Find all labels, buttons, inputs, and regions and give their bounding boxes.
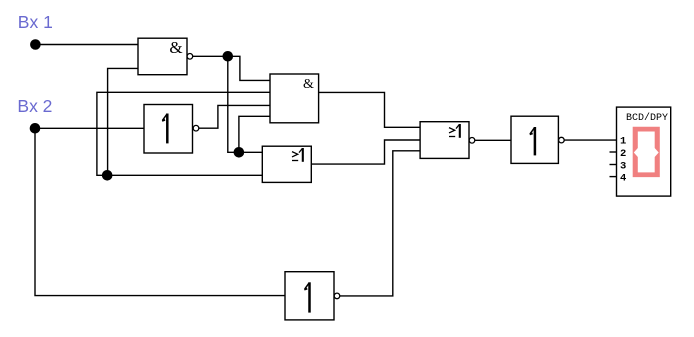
wire N4 to OR G4 input 1: [239, 151, 262, 153]
NAND gate G1: [138, 38, 193, 75]
svg-text:BCD/DPY: BCD/DPY: [626, 112, 668, 124]
wire inverter G6 output to display pin 1: [564, 139, 616, 141]
inverter G7 (bottom): [285, 272, 340, 320]
AND gate G3: [270, 74, 319, 123]
wire AND G3 output to NOR G5 input 1: [319, 92, 421, 127]
wire OR G4 output to NOR G5 input 2: [311, 140, 420, 164]
wire AND G3 input 2 long run (vertical at x=96.9 down to y=175.3): [97, 92, 270, 175]
wire NAND G1 output to node N3: [193, 55, 228, 57]
svg-text:3: 3: [620, 160, 626, 172]
wire Bx1 to NAND G1 input 1: [35, 44, 138, 46]
display segment notch right: [654, 147, 659, 157]
wire NOR G5 output to inverter G6 input: [475, 139, 511, 141]
wire N4 up to AND G3 input 4: [239, 116, 270, 152]
wire N3 down to node N4: [228, 56, 239, 152]
wire NOT G2 output to AND G3 input 3: [199, 105, 270, 128]
svg-text:1: 1: [620, 135, 626, 147]
wire buffer G7 output up to NOR G5 input 3: [340, 151, 420, 296]
svg-text:&: &: [169, 38, 182, 57]
node Bx2 input: [30, 123, 41, 134]
display 7-segment ring: [633, 127, 660, 177]
NOT gate G2: [144, 105, 199, 154]
BCD display U8 box: [617, 107, 671, 196]
node N4 junction: [234, 147, 245, 158]
inverter G6: [511, 116, 564, 163]
wire NAND G1 input 2 from node N5 (vertical at x=107.6): [108, 68, 138, 175]
display pin 3 stub: [610, 164, 617, 166]
display segment notch left: [634, 147, 639, 157]
display pin 4 stub: [610, 176, 617, 178]
node Bx1 input: [30, 39, 41, 50]
wire N3 to AND G3 input 1: [228, 56, 270, 80]
svg-text:4: 4: [620, 172, 626, 184]
display pin 2 stub: [610, 151, 617, 153]
node N3 NAND output junction: [223, 51, 234, 62]
svg-text:Bx 1: Bx 1: [18, 12, 53, 32]
node N5 junction x=107.6 on y=175.3 wire: [102, 170, 113, 181]
wire Bx2 to NOT G2 input: [35, 127, 144, 129]
wire Bx2 down to buffer G7 input: [35, 128, 285, 295]
OR gate G4: [262, 146, 311, 182]
svg-text:Bx 2: Bx 2: [17, 96, 52, 116]
svg-text:&: &: [303, 77, 314, 92]
NOR gate G5: [420, 122, 475, 159]
svg-text:2: 2: [620, 148, 626, 160]
